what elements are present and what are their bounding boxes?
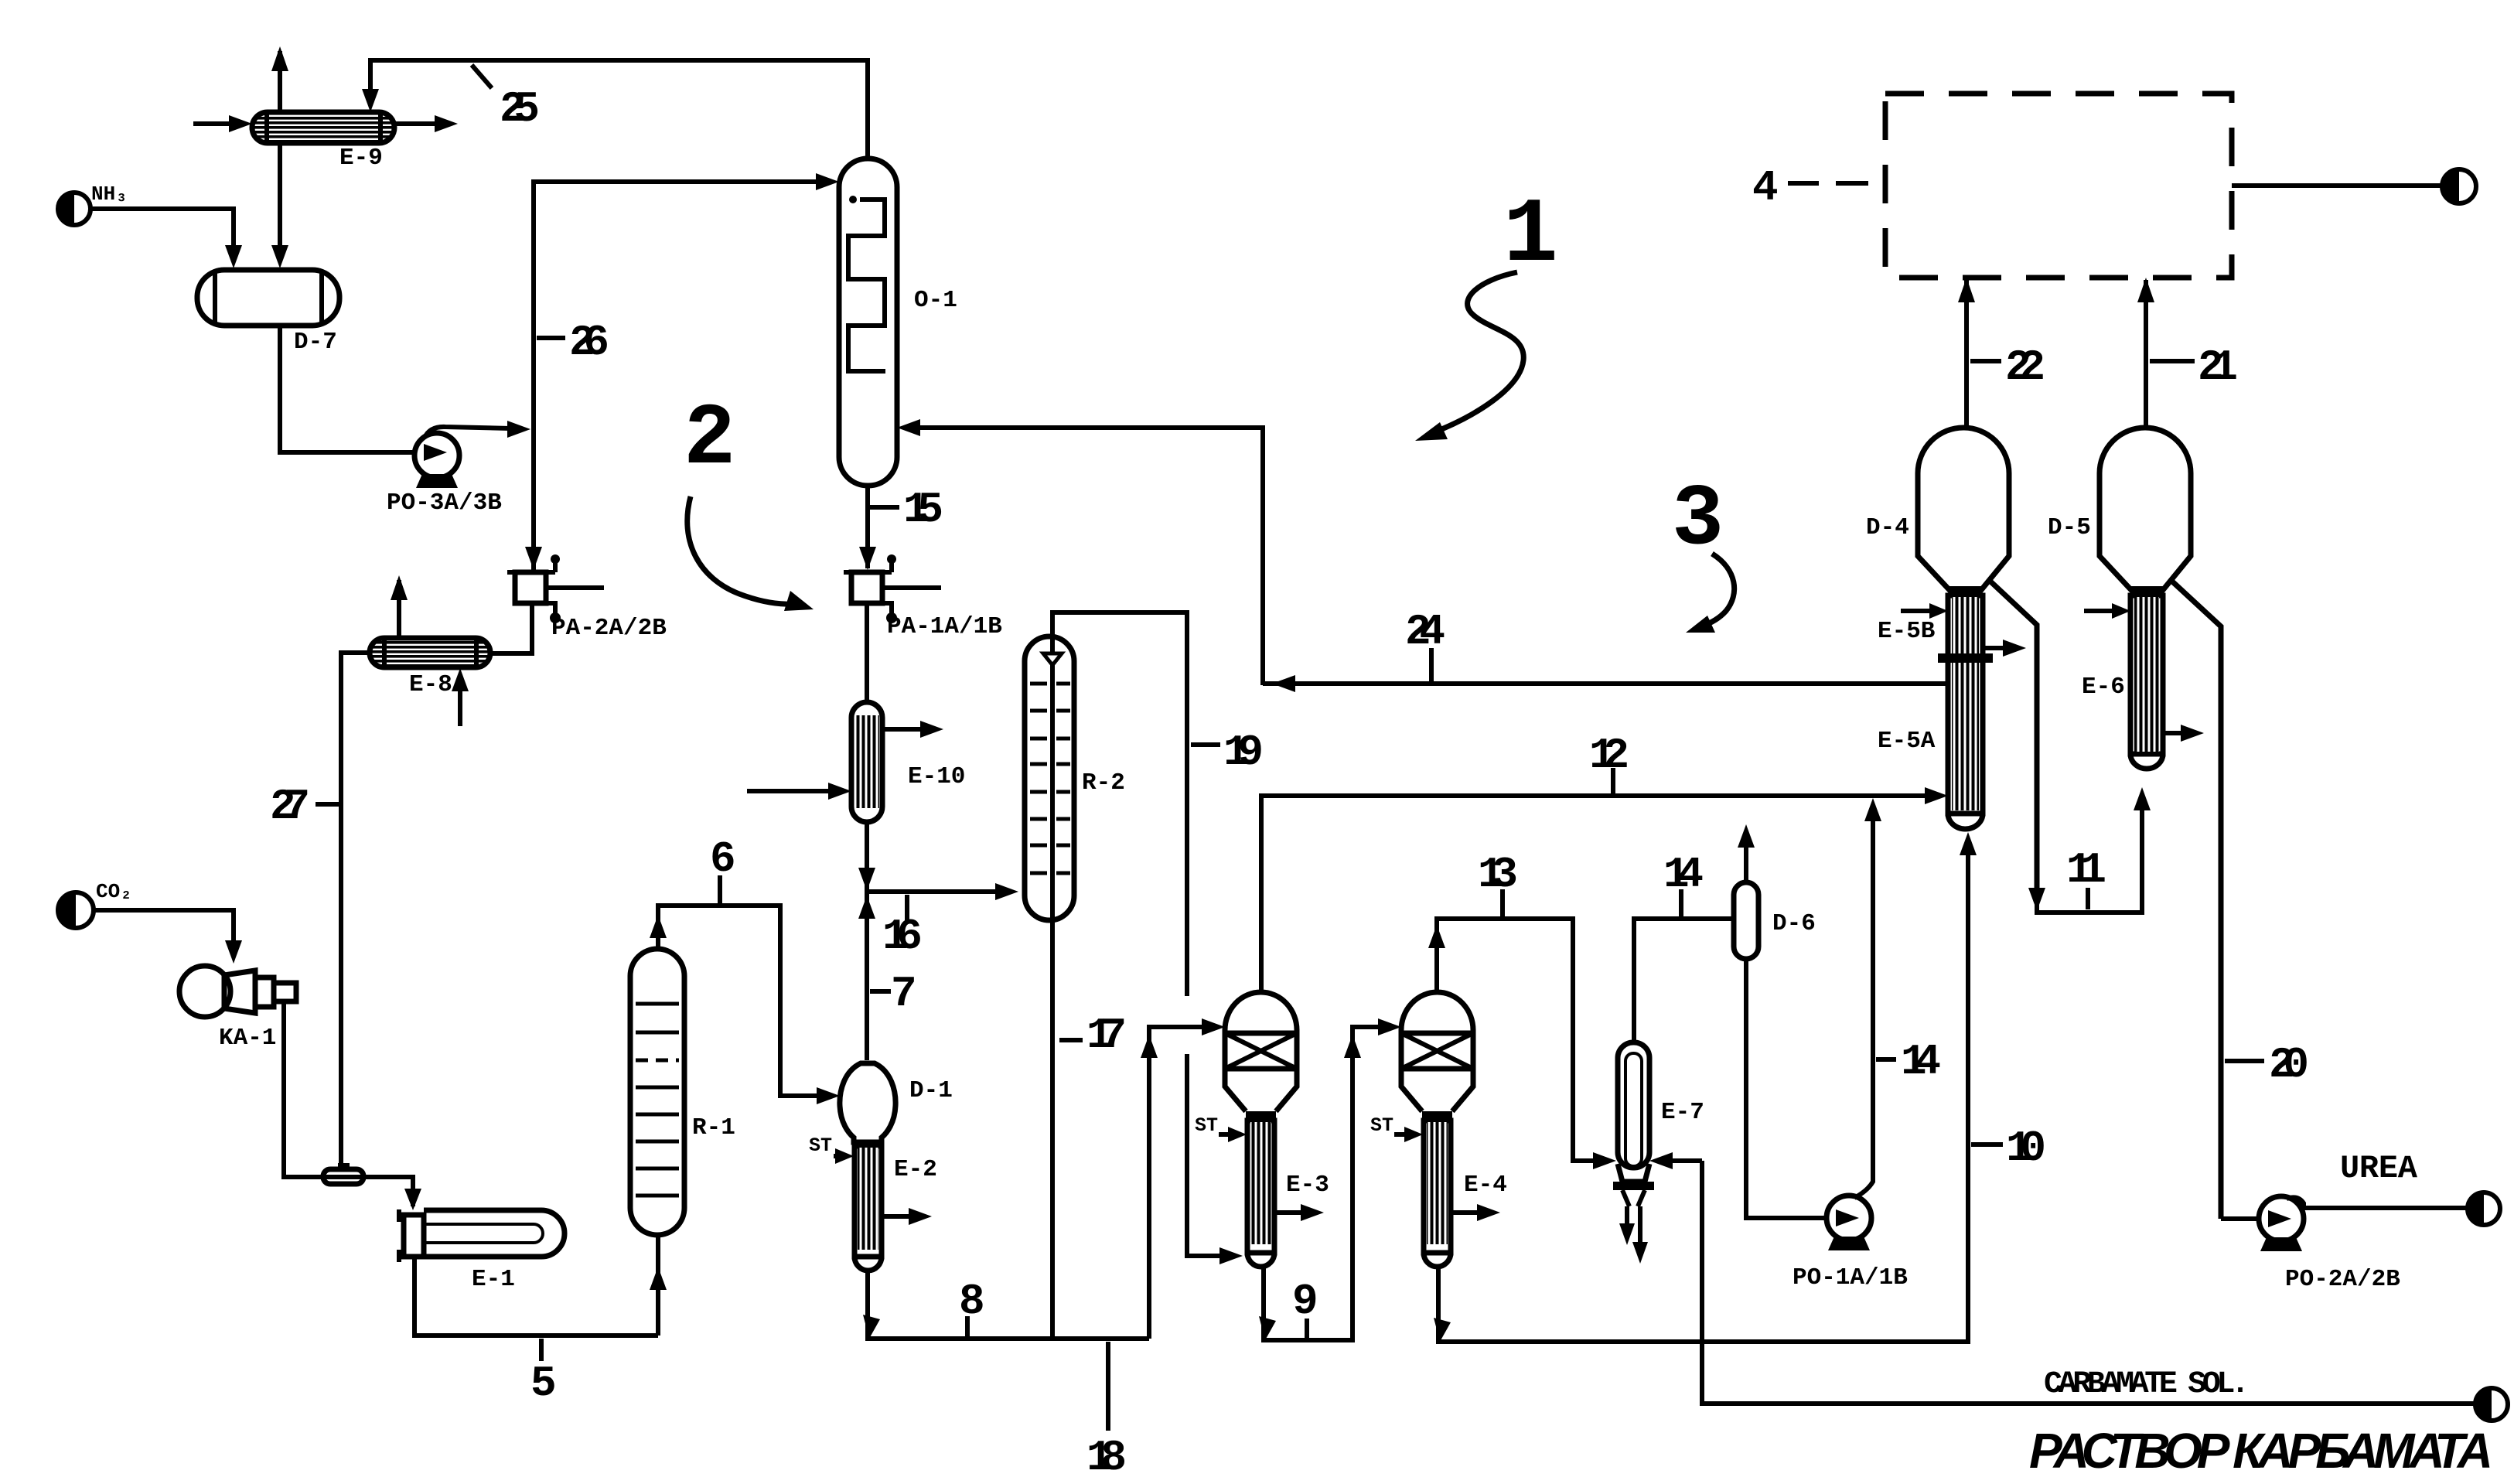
svg-text:KA-1: KA-1 xyxy=(219,1025,276,1052)
svg-text:CARBAMATE SOL.: CARBAMATE SOL. xyxy=(2044,1367,2250,1402)
svg-text:E-9: E-9 xyxy=(339,145,383,172)
svg-text:25: 25 xyxy=(500,84,540,134)
wire label tick 9 xyxy=(1305,1319,1309,1339)
heat exchanger E-4 xyxy=(1424,1121,1451,1267)
separator D-2 xyxy=(1225,992,1297,1121)
wire D-6 vent xyxy=(1744,835,1748,882)
wire 13: D-3 overhead to E-7 xyxy=(1437,919,1604,1161)
separator D-5 xyxy=(2100,428,2221,1219)
wire E-2 condensate out xyxy=(882,1214,915,1219)
heat exchanger E-10 xyxy=(851,702,882,822)
wire label tick 15 xyxy=(870,505,899,510)
wire 12: D-2 overhead to E-5A xyxy=(1261,796,1936,991)
svg-text:15: 15 xyxy=(903,485,943,534)
svg-text:E-4: E-4 xyxy=(1464,1172,1507,1199)
svg-text:2: 2 xyxy=(684,391,735,489)
wire 10: E-4 bottom manifold to E-5A xyxy=(1438,843,1968,1342)
wire label tick 18 xyxy=(1106,1342,1110,1431)
column R-2 xyxy=(1025,636,1074,920)
svg-text:20: 20 xyxy=(2269,1040,2309,1090)
svg-text:13: 13 xyxy=(1478,850,1518,899)
wire ST steam into E-4 xyxy=(1394,1132,1412,1137)
wire junction to R-2 bottom inlet xyxy=(867,889,1005,894)
svg-text:D-6: D-6 xyxy=(1772,910,1816,937)
wire label tick 10 xyxy=(1971,1142,2003,1147)
wire 24: carbamate recycle to O-1 (E-5A side) xyxy=(1263,681,1948,686)
wire label tick 6 xyxy=(718,875,722,903)
svg-text:14: 14 xyxy=(1901,1037,1941,1087)
svg-text:E-10: E-10 xyxy=(908,763,965,790)
valve PA-1A/1B xyxy=(844,554,941,623)
wire PA-1A/1B to E-10 xyxy=(865,603,869,702)
svg-text:D-1: D-1 xyxy=(909,1077,953,1104)
pump PO-3A/3B xyxy=(414,427,510,488)
wire E-2 bottom to manifold 18 xyxy=(868,1271,1149,1339)
svg-text:4: 4 xyxy=(1752,163,1779,213)
svg-text:6: 6 xyxy=(710,834,736,884)
svg-text:PO-1A/1B: PO-1A/1B xyxy=(1793,1264,1908,1291)
wire label tick 25 xyxy=(472,65,492,88)
svg-text:PO-3A/3B: PO-3A/3B xyxy=(387,490,502,517)
svg-text:ST: ST xyxy=(1195,1114,1218,1137)
svg-text:7: 7 xyxy=(891,969,917,1018)
svg-text:17: 17 xyxy=(1086,1011,1127,1060)
svg-text:PA-1A/1B: PA-1A/1B xyxy=(887,613,1002,640)
wire E-1 outlet loop 5 to R-1 xyxy=(414,1257,658,1336)
svg-text:CO₂: CO₂ xyxy=(96,880,132,903)
svg-text:14: 14 xyxy=(1663,850,1704,899)
svg-text:E-2: E-2 xyxy=(894,1156,937,1183)
svg-text:9: 9 xyxy=(1292,1277,1318,1326)
heat exchanger E-9 xyxy=(252,112,394,143)
compressor KA-1 xyxy=(179,966,296,1017)
svg-text:O-1: O-1 xyxy=(914,287,957,314)
wire D-7 bottom to pump PO-3A/3B xyxy=(280,326,414,452)
wire label tick 17 xyxy=(1059,1038,1083,1042)
wire label tick 22 xyxy=(1970,359,2001,363)
wire O-1 side return 24 xyxy=(912,428,1263,685)
wire 26: riser to O-1 xyxy=(534,182,824,571)
wire E-9 outlet right xyxy=(394,121,441,126)
svg-text:E-1: E-1 xyxy=(472,1266,515,1293)
wire label tick 7 xyxy=(870,989,891,994)
wire PA-2A/2B to E-8 xyxy=(490,603,532,653)
wire E-4 out right xyxy=(1451,1210,1483,1215)
svg-text:E-6: E-6 xyxy=(2082,674,2125,701)
wire CO2 feed to KA-1 xyxy=(94,910,234,950)
svg-text:27: 27 xyxy=(270,782,310,831)
wire 25: O-1 overhead to E-9 xyxy=(370,60,868,159)
column O-1 xyxy=(839,159,897,486)
wire D-6 bottom to pump PO-1A/1B xyxy=(1746,959,1827,1218)
valve PA-2A/2B xyxy=(507,554,604,623)
wire D-1 top riser 7 xyxy=(865,892,869,1060)
svg-text:5: 5 xyxy=(530,1359,557,1408)
wire label tick 12 xyxy=(1611,768,1615,793)
wire KA-1 discharge to tee xyxy=(284,1002,413,1206)
node figure callout 1 with arrow xyxy=(1415,185,1558,441)
heat exchanger E-1 xyxy=(399,1209,565,1262)
wire E-3 out right xyxy=(1274,1210,1307,1215)
wire O-1 bottom 15 to PA-1A/1B xyxy=(865,486,870,568)
wire label tick 26 xyxy=(537,336,565,340)
wire label tick 14 xyxy=(1679,889,1683,916)
wire label 4 leader dashes xyxy=(1788,181,1868,186)
wire E-6 outlet right xyxy=(2163,731,2187,735)
heat exchanger E-2 xyxy=(854,1146,882,1271)
wire E-10 out right xyxy=(882,727,926,732)
wire 9: E-3 bottom manifold to D-3 xyxy=(1264,1027,1389,1340)
pump PO-2A/2B xyxy=(2259,1196,2304,1251)
heat exchanger E-5B xyxy=(1938,595,1993,829)
wire label tick 24 xyxy=(1429,648,1434,684)
node figure callout 2 with arrow xyxy=(684,391,814,611)
wire pump discharge arrow to line 26 xyxy=(507,421,530,438)
svg-text:PO-2A/2B: PO-2A/2B xyxy=(2285,1266,2400,1293)
node product outlet symbol top right xyxy=(2442,169,2476,203)
svg-text:ST: ST xyxy=(809,1134,832,1157)
svg-text:D-4: D-4 xyxy=(1866,514,1909,541)
wire E-7 right feed from carbamate header xyxy=(1661,1158,1702,1163)
svg-text:10: 10 xyxy=(2006,1124,2046,1173)
wire E-10 in left xyxy=(747,789,839,793)
node NH3 inlet xyxy=(58,183,128,225)
wire label tick 5 xyxy=(539,1339,544,1361)
svg-text:R-1: R-1 xyxy=(692,1114,735,1141)
wire urea product line xyxy=(2302,1206,2472,1210)
wire 6: R-1 overhead to D-1 xyxy=(658,906,826,1096)
wire carbamate solution line xyxy=(1702,1161,2478,1404)
wire R-1 bottom feed xyxy=(656,1235,660,1336)
svg-text:22: 22 xyxy=(2005,343,2045,392)
svg-text:E-5B: E-5B xyxy=(1878,618,1935,645)
svg-text:РАСТВОР КАРБАМАТА: РАСТВОР КАРБАМАТА xyxy=(2029,1423,2493,1479)
separator D-6 xyxy=(1734,882,1758,959)
svg-text:D-7: D-7 xyxy=(294,329,337,356)
wire 17: R-2 bottoms downcomer xyxy=(1050,920,1055,1339)
wire label tick 19 xyxy=(1191,742,1220,747)
wire label tick 20 xyxy=(2225,1059,2264,1063)
node CO2 inlet xyxy=(58,880,132,928)
pump PO-1A/1B xyxy=(1827,807,1873,1250)
wire 27: E-8 to CO2 tee xyxy=(341,653,370,1164)
wire E-5B outlet right xyxy=(1983,646,2009,650)
svg-text:8: 8 xyxy=(959,1277,985,1326)
wire label tick 14b xyxy=(1876,1057,1896,1062)
svg-text:E-7: E-7 xyxy=(1661,1099,1704,1126)
separator D-3 xyxy=(1401,992,1473,1121)
node mixing tee xyxy=(323,1163,363,1184)
wire D-7 vent through E-9 xyxy=(278,51,282,255)
wire pump PO-1A/1B discharge joins line 12 xyxy=(1864,798,1881,821)
wire box outlet to product symbol xyxy=(2232,183,2444,188)
heat exchanger E-3 xyxy=(1247,1121,1274,1267)
wire E-10 bottom to junction xyxy=(865,822,869,892)
svg-text:12: 12 xyxy=(1589,731,1629,780)
wire 17 riser manifold to D-2 xyxy=(1149,1027,1213,1339)
wire 21: D-5 overhead to box xyxy=(2144,280,2148,428)
svg-text:ST: ST xyxy=(1370,1114,1393,1137)
node figure callout 3 with arrow xyxy=(1672,471,1735,633)
node dashed battery-limit box 4 xyxy=(1885,94,2232,278)
heat exchanger E-7 xyxy=(1613,1042,1654,1264)
node UREA outlet symbol xyxy=(2468,1192,2500,1225)
wire E-9 water inlet xyxy=(193,121,240,126)
svg-text:26: 26 xyxy=(569,318,609,367)
svg-text:E-8: E-8 xyxy=(409,671,452,698)
svg-text:18: 18 xyxy=(1086,1433,1127,1482)
wire ST steam into E-2 xyxy=(834,1154,843,1158)
svg-text:16: 16 xyxy=(882,912,923,961)
wire 11: D-4 side to E-6 bottom xyxy=(2037,798,2142,913)
heat exchanger E-6 xyxy=(2130,595,2163,769)
svg-text:E-3: E-3 xyxy=(1286,1172,1329,1199)
wire E-8 water in bottom xyxy=(458,679,462,726)
wire E-6 inlet left xyxy=(2084,609,2119,613)
wire label tick 27 xyxy=(316,802,339,807)
wire label tick 11 xyxy=(2086,888,2090,909)
wire E-5B inlet left xyxy=(1901,609,1936,613)
node carbamate outlet symbol xyxy=(2475,1388,2508,1421)
wire NH3 feed to D-7 xyxy=(90,209,234,251)
wire 14: E-7 overhead to D-6 xyxy=(1634,919,1734,1042)
wire ST steam into E-3 xyxy=(1219,1132,1236,1137)
wire 22: D-4 overhead to box xyxy=(1964,280,1969,428)
heat exchanger E-8 xyxy=(370,638,490,667)
svg-text:D-5: D-5 xyxy=(2048,514,2091,541)
drum D-7 xyxy=(197,270,339,326)
wire 19: R-2 overhead to E-3 bottom xyxy=(1052,612,1230,1256)
svg-text:UREA: UREA xyxy=(2340,1150,2418,1187)
svg-text:11: 11 xyxy=(2066,845,2106,895)
wire 20: D-5 side to pump PO-2A/2B xyxy=(2221,1216,2259,1221)
wire label tick 8 xyxy=(965,1316,970,1339)
svg-text:21: 21 xyxy=(2198,343,2238,392)
svg-text:R-2: R-2 xyxy=(1082,769,1125,797)
svg-text:19: 19 xyxy=(1223,728,1264,777)
separator D-1 xyxy=(840,1063,895,1148)
wire E-8 vent top xyxy=(397,580,401,638)
column R-1 xyxy=(630,949,684,1235)
svg-text:NH₃: NH₃ xyxy=(91,183,128,206)
wire arrow into D-7 xyxy=(225,245,242,268)
svg-text:E-5A: E-5A xyxy=(1878,728,1936,755)
svg-text:24: 24 xyxy=(1405,607,1445,657)
separator D-4 xyxy=(1918,428,2037,897)
wire label tick 21 xyxy=(2150,359,2195,363)
wire label tick 13 xyxy=(1500,889,1505,916)
wire label tick 16 xyxy=(905,895,909,922)
svg-text:PA-2A/2B: PA-2A/2B xyxy=(551,615,667,642)
